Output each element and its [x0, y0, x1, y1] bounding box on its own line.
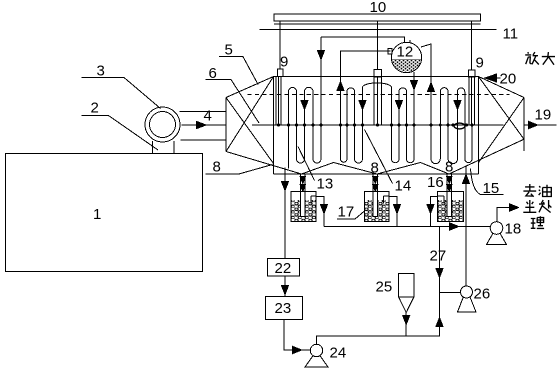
tank B overflow pipe	[389, 197, 397, 227]
arrow up on riser x439 lower	[436, 318, 443, 327]
chamber dashed gas level line	[248, 94, 510, 96]
arrow right on header	[450, 223, 459, 230]
tank A overflow pipe	[316, 197, 324, 227]
inlet duct bottom wall	[181, 139, 227, 141]
svg-text:9: 9	[280, 54, 288, 71]
hanger rod left	[279, 21, 281, 69]
pipe box 23 to pump 24	[284, 320, 310, 351]
arrow up on x340	[337, 82, 344, 91]
svg-text:11: 11	[503, 26, 519, 43]
svg-text:12: 12	[397, 44, 414, 61]
tube leg 447.6	[447, 92, 449, 160]
tank C liquid	[438, 200, 463, 221]
blower fan inner circle	[150, 112, 176, 138]
tube bottom bend 340-346.5	[341, 159, 348, 162]
tube top arc 288-296	[289, 88, 297, 92]
tube bottom bend 406-413.5	[407, 159, 415, 163]
outlet arrow 19	[529, 121, 538, 128]
label qu-you-chen-chu-li text block	[523, 184, 551, 228]
tube leg 406	[406, 92, 408, 160]
tube bottom bend 391-398.5	[392, 159, 400, 163]
chamber left wall	[273, 77, 275, 175]
tube bottom bend 296-304	[297, 159, 305, 163]
svg-text:14: 14	[395, 178, 412, 195]
pump 24 base	[305, 356, 328, 367]
pump 26 casing	[461, 286, 473, 298]
svg-text:8: 8	[445, 159, 453, 176]
arrow right pump 18 outlet	[510, 204, 519, 211]
tube leg 457	[457, 92, 459, 160]
downcomer pipe from line to chamber x320	[320, 37, 322, 159]
electrode post 9 left cap	[278, 69, 284, 77]
drain line from hopper to box 22	[284, 168, 286, 259]
drum left nozzle	[388, 49, 392, 55]
arrow down 22 to 23	[282, 286, 289, 295]
arrow down tank A overflow	[321, 205, 328, 214]
tank B liquid	[365, 200, 389, 221]
collect header to pump 18	[324, 226, 490, 228]
chamber right wall	[478, 77, 480, 175]
water seal tank A shell	[291, 192, 316, 222]
connector 22 to 23	[284, 276, 286, 297]
tube bottom bend 430.5-439.8	[431, 159, 440, 164]
drum top right nozzle tick	[409, 40, 411, 43]
inlet cone cross line b	[226, 77, 274, 152]
arrow down on 304	[301, 101, 308, 110]
settling box 1	[6, 154, 203, 272]
arrow down on 362	[359, 101, 366, 110]
svg-text:26: 26	[474, 286, 491, 303]
arrow up on x430.5	[428, 83, 435, 92]
dust hopper 25 drain	[405, 313, 407, 337]
tube leg 362	[362, 88, 364, 160]
steam drum water level chord	[392, 59, 422, 61]
svg-text:27: 27	[430, 248, 447, 265]
tube leg 391	[391, 88, 393, 160]
tube bottom bend 464.3-471.5	[465, 159, 472, 163]
water seal tank C shell	[438, 192, 464, 222]
arrows in drop pipe C	[447, 177, 453, 184]
dust hopper 25 funnel	[399, 297, 415, 313]
electrode post 9 left body	[276, 77, 281, 126]
inlet cone top edge	[226, 77, 274, 98]
svg-text:25: 25	[376, 279, 393, 296]
riser from pump 26 to hopper	[465, 167, 467, 287]
tube bottom bend 447.6-457	[448, 159, 457, 164]
pump 26 base	[458, 297, 477, 312]
inlet duct top wall	[180, 111, 227, 113]
tube leg 304	[304, 92, 306, 160]
riser pipe x340 to drum left nozzle	[341, 51, 391, 159]
svg-text:20: 20	[500, 71, 517, 88]
arrow down on 398.5	[396, 101, 403, 110]
electrode post 9 right cap	[469, 70, 476, 77]
heat pipe leg x288 draining to hopper	[288, 92, 290, 169]
svg-text:5: 5	[225, 42, 233, 59]
tube leg 439.8	[439, 92, 441, 160]
tube bottom bend 354-362	[355, 159, 363, 163]
hanger rod right	[471, 21, 473, 70]
electrode post 9 middle body	[374, 77, 382, 125]
beam lower rail	[274, 23, 481, 25]
hopper tent baffle 1	[302, 163, 378, 175]
tank B pipe interior	[373, 197, 377, 217]
label 14 with leader	[365, 130, 393, 184]
outlet cone bottom edge from hopper	[449, 139, 524, 174]
wide tube arc 362-391 over middle post	[363, 83, 392, 88]
arrow right into pump 24	[293, 346, 302, 353]
drop pipe to tank 16	[447, 174, 452, 217]
arrows in drop pipe B	[373, 177, 379, 184]
fan support neck	[153, 141, 174, 154]
inlet cone cross line a	[226, 98, 274, 164]
electrode post 9 right body	[469, 77, 475, 125]
arrows in drop pipe A	[300, 177, 306, 184]
enlarge-marker ellipse on header	[454, 123, 465, 129]
svg-text:3: 3	[97, 63, 105, 80]
tube leg 312.5	[312, 92, 314, 160]
steam drum water fill	[392, 60, 422, 72]
svg-text:18: 18	[505, 221, 522, 238]
pump 18 base	[487, 233, 507, 244]
svg-text:2: 2	[91, 100, 99, 117]
label fang (enlarge) char	[525, 52, 555, 65]
drop pipe to tank 13	[301, 174, 306, 217]
tube leg 398.5	[398, 92, 400, 160]
arrow down on line 27	[436, 269, 443, 278]
hanger line 11	[260, 29, 497, 31]
svg-text:8: 8	[213, 159, 221, 176]
water seal tank B shell	[365, 192, 390, 222]
svg-text:24: 24	[330, 345, 347, 362]
steam drum 12 shell	[391, 42, 421, 72]
flow arrow 4	[197, 121, 207, 128]
pump 18 outlet	[497, 208, 510, 222]
outlet line 19	[524, 124, 557, 126]
tube top arc 439.8-447.6	[440, 88, 448, 92]
svg-text:22: 22	[275, 260, 292, 277]
pump 24 casing	[310, 344, 322, 356]
box 22	[268, 259, 300, 277]
inlet flange	[225, 98, 227, 152]
pipe from 27-line to pump 26	[440, 292, 461, 294]
duct centerline / chamber header line	[182, 124, 227, 126]
outlet cone cross a	[479, 77, 525, 140]
top pipe y36.5 to drum top	[321, 37, 405, 43]
tube leg 354	[354, 92, 356, 160]
tank C inlet pipe from left	[431, 197, 438, 227]
tube top arc 346.5-354	[347, 88, 355, 92]
tube bottom bend 312.5-320.5	[313, 159, 321, 163]
svg-text:4: 4	[204, 108, 212, 125]
outlet cone top edge	[479, 77, 525, 98]
tube top arc 304-312.5	[305, 87, 314, 91]
outlet cone cross b	[479, 98, 525, 163]
svg-text:13: 13	[317, 176, 334, 193]
arrow down tank C inlet branch	[427, 205, 434, 214]
drum bottom downcomer x413.5	[413, 72, 415, 159]
hopper tent baffle 2	[377, 163, 449, 175]
svg-text:23: 23	[275, 300, 292, 317]
electrode post 9 middle cap	[374, 70, 382, 77]
suspension beam 10	[274, 14, 481, 21]
arrow down on x320	[318, 51, 325, 60]
hopper flat bottom line	[274, 173, 479, 175]
tube top arc 398.5-406	[399, 88, 407, 92]
svg-text:10: 10	[370, 0, 387, 16]
svg-text:16: 16	[427, 174, 444, 191]
arrow down on drain line	[282, 182, 289, 191]
tube top arc 457-464.3	[458, 88, 465, 92]
label da char	[542, 52, 555, 65]
label 13 with leader	[298, 147, 315, 181]
box 23	[266, 297, 303, 320]
arrow down hopper drain	[403, 316, 410, 325]
arrow down on 457	[454, 101, 461, 110]
tube leg 296	[296, 92, 298, 160]
tube leg 464.3	[464, 92, 466, 160]
svg-text:1: 1	[93, 206, 101, 223]
tube leg 471.5 extension below post	[471, 125, 473, 159]
tube leg 346.5	[346, 92, 348, 160]
svg-text:9: 9	[476, 55, 484, 72]
drop pipe to tank 14	[373, 174, 378, 217]
chamber header line	[252, 124, 504, 126]
svg-text:17: 17	[338, 204, 355, 221]
arrow up on riser x465.5	[463, 175, 470, 184]
header junction dots	[277, 124, 474, 127]
tank A pipe interior	[301, 197, 305, 217]
svg-text:19: 19	[535, 107, 552, 124]
arrow down tank B overflow	[394, 205, 401, 214]
tank A weir notch	[311, 196, 316, 204]
chamber top wall	[274, 76, 479, 78]
pump 24 outlet line to riser	[317, 227, 440, 345]
tank C weir notch	[438, 196, 445, 204]
inlet cone bottom edge extending to hopper	[226, 152, 302, 175]
pump 18 casing	[490, 222, 503, 235]
tank A liquid	[292, 200, 316, 221]
outlet flange	[523, 98, 525, 152]
drum right nozzle pipe to riser x430.5	[421, 44, 431, 159]
tank B weir notch	[384, 196, 390, 204]
dust hopper 25 body	[399, 274, 415, 297]
hanger rod middle	[377, 21, 379, 70]
arrow down on x413.5	[411, 81, 418, 90]
magnify arrow 20	[485, 74, 497, 82]
blower fan 3 outer circle	[145, 107, 180, 142]
tank C pipe interior	[447, 197, 451, 217]
